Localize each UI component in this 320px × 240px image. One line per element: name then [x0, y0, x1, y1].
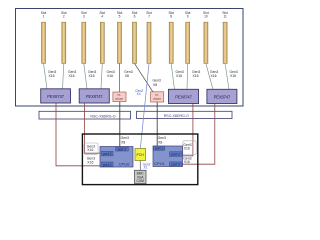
svg-text:X16: X16: [107, 74, 113, 78]
riser card RSC right: [137, 111, 233, 118]
svg-text:X16: X16: [69, 74, 75, 78]
slot 7 connector: [147, 22, 151, 63]
svg-text:X16: X16: [49, 74, 55, 78]
svg-text:X8: X8: [125, 74, 129, 78]
wire PEX4 to CPU1 port3: [182, 104, 215, 165]
wire slot5 to re-driver1: [119, 64, 121, 93]
CPU0 port 2: [102, 151, 114, 156]
motherboard CPU area box: [82, 134, 197, 185]
svg-text:2: 2: [63, 15, 65, 19]
svg-text:X16: X16: [193, 74, 199, 78]
label box Gen3 X16 CPU0 port2 link: [84, 143, 98, 154]
PEX8747 switch 1: [41, 89, 71, 103]
CPU1 port 2: [170, 152, 183, 157]
Gen3 X16 label slot1: [48, 70, 238, 87]
svg-text:COM: COM: [136, 179, 144, 183]
wire slot6 to re-driver2: [135, 64, 154, 93]
svg-text:X16: X16: [176, 74, 182, 78]
wire PEX3 to CPU1 port2: [182, 104, 193, 156]
svg-text:X1: X1: [144, 166, 148, 170]
svg-text:5: 5: [119, 15, 121, 19]
wire slot4 to PEX2: [101, 64, 102, 90]
svg-text:10: 10: [204, 15, 208, 19]
Gen2 X1 label PCH-BMC: [143, 163, 151, 170]
svg-text:X8: X8: [121, 140, 125, 144]
wire slot1 to PEX1: [44, 64, 230, 90]
wire re-driver2 to CPU1 port1: [156, 102, 158, 146]
slot 11 connector: [223, 22, 227, 63]
svg-text:3: 3: [83, 15, 85, 19]
wire slot10 to PEX4: [206, 64, 213, 90]
wire slot7 to PCH: [140, 64, 149, 150]
svg-text:PEX8747: PEX8747: [86, 94, 103, 99]
svg-text:11: 11: [223, 15, 227, 19]
riser card RSC left: [39, 111, 131, 119]
svg-text:9: 9: [187, 15, 189, 19]
CPU1 port 3: [170, 162, 183, 166]
slot 1 label: [41, 11, 228, 19]
wire PEX1 to CPU0 port3: [56, 103, 102, 166]
BMC VGA COM block: [135, 170, 147, 183]
svg-text:CPU1: CPU1: [154, 161, 165, 166]
svg-text:X4: X4: [137, 92, 141, 96]
svg-text:PEX8747: PEX8747: [214, 94, 231, 99]
slot 10 connector: [204, 22, 208, 63]
svg-text:port 1: port 1: [118, 147, 127, 151]
svg-text:driver: driver: [115, 97, 124, 101]
svg-text:X16: X16: [184, 160, 190, 164]
Gen2 X4 label slot7 wire: [135, 89, 143, 96]
wire slot11 to PEX4: [225, 64, 229, 90]
svg-text:8: 8: [170, 15, 172, 19]
CPU0 port 3: [102, 162, 114, 166]
svg-text:port 3: port 3: [171, 163, 180, 167]
svg-text:6: 6: [134, 15, 136, 19]
Gen3 X8 label above CPU0 port1: [87, 136, 192, 164]
CPU1 port 1: [153, 146, 164, 150]
CPU0: [100, 147, 133, 168]
wire PEX2 to CPU0 port2: [85, 103, 102, 153]
wire slot2 to PEX1: [63, 64, 64, 90]
CPU0 port 1: [116, 147, 129, 151]
svg-text:X8: X8: [153, 83, 157, 87]
slot 6 connector: [133, 22, 137, 63]
slot 4 connector: [100, 22, 104, 63]
svg-text:RSC-X8DRG-O: RSC-X8DRG-O: [90, 114, 115, 118]
wire PCH to BMC: [139, 161, 141, 171]
PEX8747 switch 2: [79, 89, 109, 103]
svg-text:X16: X16: [230, 74, 236, 78]
svg-text:X8: X8: [158, 140, 162, 144]
label box Gen3 X16 CPU1 port2 link: [183, 141, 196, 155]
PEX8747 switch 4: [207, 89, 237, 103]
wire slot8 to PEX3: [171, 64, 174, 90]
svg-text:driver: driver: [153, 97, 162, 101]
wire re-driver1 to CPU0 port1: [119, 102, 121, 148]
svg-text:port 2: port 2: [171, 153, 180, 157]
svg-text:port 2: port 2: [103, 152, 112, 156]
svg-text:X16: X16: [184, 146, 190, 150]
slot 1 connector: [42, 22, 228, 63]
svg-text:X16: X16: [89, 74, 95, 78]
wire slot9 to PEX3: [186, 64, 189, 90]
re-driver 1: [113, 92, 126, 102]
PEX8747 switch 3: [169, 89, 199, 103]
PCH: [135, 149, 146, 161]
svg-text:port 1: port 1: [155, 147, 164, 151]
svg-text:CPU0: CPU0: [119, 162, 130, 167]
re-driver 2: [151, 92, 164, 102]
outer motherboard box: [16, 9, 244, 107]
wire slot3 to PEX2: [84, 64, 87, 90]
svg-text:port 3: port 3: [103, 163, 112, 167]
svg-text:PEX8747: PEX8747: [175, 94, 192, 99]
slot 3 connector: [82, 22, 86, 63]
svg-text:X16: X16: [87, 148, 93, 152]
svg-text:X16: X16: [87, 160, 93, 164]
svg-text:PEX8747: PEX8747: [47, 94, 64, 99]
slot 8 connector: [169, 22, 173, 63]
svg-text:1: 1: [43, 15, 45, 19]
svg-text:RSC-X8DRG-O: RSC-X8DRG-O: [164, 114, 189, 118]
CPU1: [153, 146, 183, 167]
svg-text:PCH: PCH: [137, 153, 145, 157]
svg-text:7: 7: [148, 15, 150, 19]
slot 9 connector: [186, 22, 190, 63]
slot 2 connector: [62, 22, 66, 63]
svg-text:4: 4: [101, 15, 103, 19]
svg-text:X16: X16: [211, 74, 217, 78]
slot 5 connector: [118, 22, 122, 63]
